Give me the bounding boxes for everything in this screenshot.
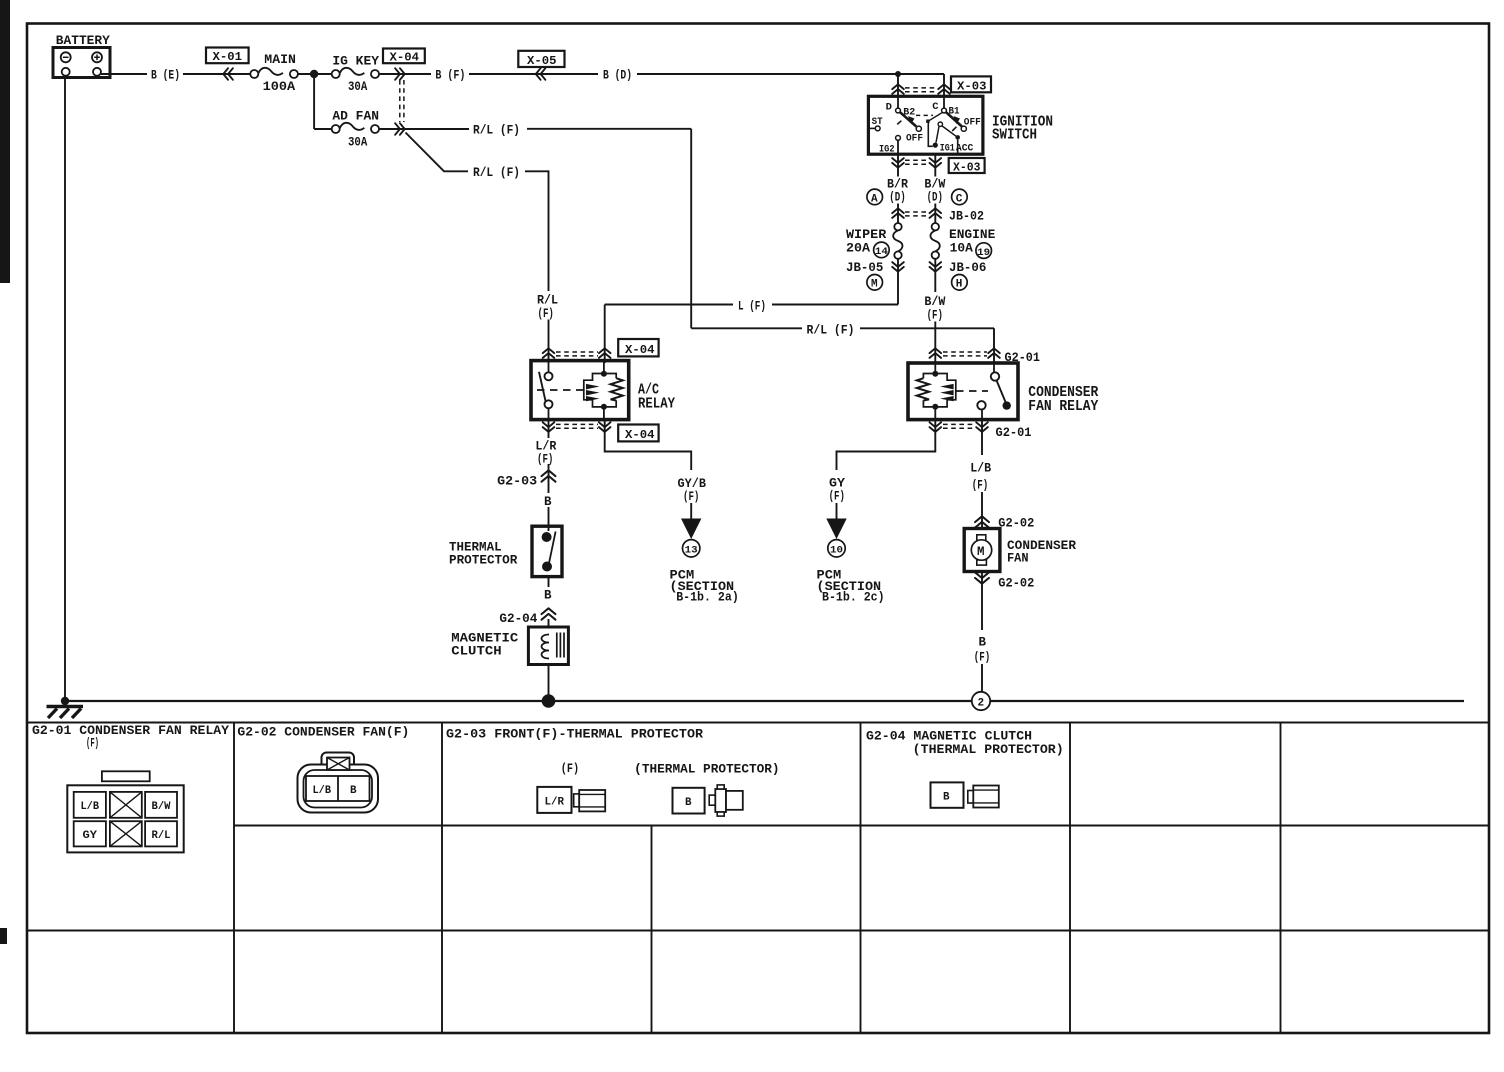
takeout circle 13: [683, 540, 700, 557]
connector X-04 chevrons top: [395, 68, 405, 80]
A/C relay U: [531, 361, 629, 420]
svg-text:X-05: X-05: [527, 54, 557, 68]
position tick left: [897, 121, 901, 125]
svg-text:B: B: [979, 636, 987, 650]
wire B(F) to B(D): [469, 73, 598, 75]
wire B(E) battery to X-01: [101, 73, 250, 75]
wire IG1 below switch: [934, 154, 936, 176]
svg-text:OFF: OFF: [964, 116, 981, 128]
svg-text:(F): (F): [972, 479, 988, 493]
svg-text:OFF: OFF: [906, 132, 923, 144]
scan artifact: left edge tick: [0, 928, 7, 944]
svg-text:X-04: X-04: [625, 343, 655, 357]
svg-text:R/L (F): R/L (F): [473, 123, 520, 137]
battery: [53, 48, 110, 78]
connector X-03 chevrons above ignition switch: [892, 84, 904, 94]
svg-text:ENGINE: ENGINE: [949, 228, 995, 242]
wire junction down to ignition switch: [897, 74, 899, 97]
svg-text:B/W: B/W: [152, 801, 171, 813]
pin IG1: [933, 143, 938, 148]
svg-text:R/L: R/L: [152, 830, 171, 842]
connector G2-02 chevrons above fan: [975, 516, 989, 527]
svg-text:14: 14: [875, 246, 888, 258]
svg-text:(F): (F): [829, 489, 845, 503]
wire wiper fuse down: [897, 259, 899, 305]
svg-text:B-1b. 2a): B-1b. 2a): [676, 591, 739, 605]
takeout circle 14: [874, 242, 890, 258]
svg-text:B: B: [350, 785, 357, 797]
wire magnetic clutch to ground: [548, 665, 550, 702]
wire AD FAN fuse to R/L(F): [379, 128, 469, 130]
ignition switch U: [868, 96, 983, 155]
connector drawing G2-01 condenser fan relay: [67, 771, 183, 852]
wire to magnetic clutch: [548, 619, 550, 627]
connector X-04 chevrons lower: [395, 123, 405, 135]
connector X-04 label box: [383, 49, 425, 65]
fuse AD FAN 30A: [332, 110, 379, 150]
connector X-03 dashed link bottom: [905, 160, 929, 164]
svg-text:B (E): B (E): [151, 68, 180, 82]
blade B2-OFF: [900, 112, 916, 126]
svg-text:CLUTCH: CLUTCH: [451, 645, 501, 659]
connector drawing G2-02 condenser fan: [298, 753, 379, 813]
connector X-05 chevrons: [536, 68, 546, 80]
pin ACC: [955, 135, 960, 140]
svg-text:(F): (F): [86, 736, 99, 751]
svg-text:L/R: L/R: [535, 440, 556, 454]
wire GY down to arrow: [836, 503, 838, 519]
svg-text:JB-05: JB-05: [846, 261, 883, 275]
connector G2-01 dashed link below: [943, 424, 975, 428]
wire R/L(F) second to descent: [525, 171, 549, 291]
svg-text:10: 10: [830, 545, 843, 557]
svg-text:30A: 30A: [348, 136, 368, 150]
svg-text:G2-01 CONDENSER FAN RELAY: G2-01 CONDENSER FAN RELAY: [32, 723, 229, 738]
pin IG2: [896, 136, 901, 141]
wire L(F) down to A/C relay coil: [604, 305, 606, 364]
relay linkage dashed: [956, 390, 988, 392]
wire condenser fan down: [981, 572, 983, 630]
svg-text:X-04: X-04: [625, 428, 655, 442]
svg-text:L (F): L (F): [738, 299, 766, 313]
svg-text:THERMAL: THERMAL: [449, 541, 502, 555]
dashed detent line: [916, 114, 933, 116]
wire B to thermal protector: [548, 507, 550, 531]
wire R/L(F) horizontal to condenser fan relay: [691, 328, 994, 363]
relay coil loop blobs: [940, 384, 954, 401]
svg-text:G2-02: G2-02: [998, 517, 1034, 531]
position tick right: [952, 127, 956, 131]
wire A/C relay coil to PCM: [605, 420, 692, 470]
connector X-04 label box mid upper: [618, 339, 658, 357]
svg-text:L/R: L/R: [545, 797, 565, 809]
svg-text:L/B: L/B: [81, 801, 100, 813]
svg-text:X-01: X-01: [213, 50, 243, 64]
svg-text:M: M: [871, 279, 878, 291]
svg-text:(D): (D): [889, 191, 905, 205]
svg-text:ACC: ACC: [956, 143, 974, 155]
svg-text:R/L (F): R/L (F): [807, 323, 855, 337]
wire A/C relay switch down: [548, 420, 550, 438]
ground bus wire: [65, 700, 1464, 702]
svg-text:D: D: [886, 102, 892, 114]
svg-text:30A: 30A: [348, 80, 368, 94]
svg-text:13: 13: [685, 545, 698, 557]
svg-text:B (D): B (D): [603, 68, 632, 82]
connector X-01 chevrons: [223, 68, 233, 80]
svg-text:(F): (F): [927, 308, 943, 322]
link C to IG1: [929, 113, 942, 121]
relay coil top pin: [603, 361, 605, 374]
wire L(F) horizontal: [605, 304, 898, 306]
takeout circle 19: [976, 243, 992, 259]
magnetic clutch U: [528, 627, 568, 665]
connector JB-02 chevrons: [892, 208, 904, 218]
connector G2-01 dashed link above: [943, 352, 987, 356]
svg-text:(F): (F): [537, 453, 553, 467]
terminal box L/R with plug icon: [537, 787, 605, 813]
svg-text:B/R: B/R: [887, 178, 908, 192]
svg-text:G2-04: G2-04: [499, 612, 537, 626]
relay switch contacts: [545, 372, 553, 380]
connector X-04 label box mid lower: [618, 425, 658, 443]
svg-text:FAN: FAN: [1007, 551, 1029, 566]
svg-text:B (F): B (F): [435, 68, 465, 82]
junction node: [310, 70, 318, 78]
svg-text:G2-01: G2-01: [996, 425, 1032, 440]
svg-text:R/L: R/L: [537, 294, 558, 308]
svg-text:IG KEY: IG KEY: [332, 55, 379, 69]
svg-text:M: M: [977, 545, 985, 559]
connector G2-02 chevrons below fan: [975, 572, 989, 583]
svg-text:(D): (D): [927, 191, 943, 205]
connector X-03 dashed link top: [905, 88, 937, 92]
wire IG2 below switch: [897, 154, 899, 176]
svg-text:GY/B: GY/B: [678, 477, 707, 491]
wire B/W to engine fuse: [934, 204, 936, 224]
connector G2-01 chevrons below relay: [930, 422, 942, 432]
svg-text:10A: 10A: [950, 241, 974, 255]
takeout circle A: [867, 189, 883, 205]
svg-text:IG2: IG2: [879, 143, 895, 155]
svg-text:G2-03 FRONT(F)-THERMAL PROTECT: G2-03 FRONT(F)-THERMAL PROTECTOR: [446, 727, 703, 742]
svg-text:C: C: [932, 101, 939, 113]
connector JB-06 chevrons: [930, 262, 942, 272]
svg-text:GY: GY: [829, 476, 846, 490]
svg-text:G2-02 CONDENSER FAN(F): G2-02 CONDENSER FAN(F): [237, 725, 409, 740]
condenser fan relay U: [908, 363, 1018, 420]
junction node battery ground: [61, 697, 69, 705]
svg-text:(THERMAL PROTECTOR): (THERMAL PROTECTOR): [634, 763, 779, 777]
fuse IG KEY 30A: [332, 55, 380, 94]
svg-text:B: B: [685, 797, 692, 809]
svg-text:L/B: L/B: [970, 462, 991, 476]
wire B/R to wiper fuse: [897, 204, 899, 224]
svg-text:(F): (F): [974, 651, 990, 665]
relay coil bottom pin: [601, 404, 607, 410]
wire battery negative to ground: [64, 76, 66, 701]
svg-text:B-1b. 2c): B-1b. 2c): [822, 591, 885, 605]
wire engine fuse down: [934, 259, 936, 292]
svg-text:A: A: [871, 193, 878, 205]
wire condenser fan relay coil to PCM: [837, 420, 936, 470]
takeout circle 2 on ground bus: [972, 692, 990, 710]
ground symbol: [47, 707, 84, 719]
wire fuse to B(F): [379, 73, 431, 75]
svg-text:JB-06: JB-06: [949, 261, 986, 275]
svg-text:(F): (F): [683, 490, 699, 504]
blade B1-OFF: [946, 112, 962, 126]
svg-text:L/B: L/B: [313, 785, 332, 797]
svg-text:2: 2: [978, 698, 985, 710]
svg-text:AD FAN: AD FAN: [332, 110, 379, 124]
connector X-05 label box: [518, 51, 564, 68]
connector X-04 dashed link above relay: [556, 352, 598, 356]
svg-text:GY: GY: [83, 830, 98, 842]
svg-text:B/W: B/W: [924, 295, 945, 309]
connector table grid: [27, 723, 1489, 1034]
svg-text:X-03: X-03: [957, 79, 987, 93]
svg-text:B: B: [943, 792, 950, 804]
svg-text:IG1: IG1: [940, 143, 955, 155]
svg-text:X-04: X-04: [390, 51, 420, 65]
svg-text:WIPER: WIPER: [846, 228, 887, 242]
takeout circle 10: [828, 540, 845, 557]
wire B(D) to ignition switch: [637, 74, 944, 97]
wire R/L(F) resume to A/C relay: [548, 320, 550, 364]
condenser fan motor U: [964, 529, 1000, 572]
connector G2-01 chevrons above condenser fan relay: [930, 348, 942, 358]
junction node magnetic clutch ground: [542, 694, 556, 708]
svg-text:B: B: [544, 495, 552, 509]
wire L/B down to condenser fan: [981, 492, 983, 529]
svg-text:C: C: [956, 193, 963, 205]
relay coil resistor zigzag: [611, 378, 623, 400]
connector X-04 chevrons above A/C relay: [543, 348, 555, 358]
connector JB-02 dashed link: [905, 212, 929, 216]
svg-text:B: B: [544, 589, 552, 603]
svg-text:B/W: B/W: [924, 178, 945, 192]
svg-text:BATTERY: BATTERY: [56, 33, 110, 48]
wire B(F) to ground circle 2: [981, 664, 983, 692]
terminal box B with plug icon G2-04: [931, 782, 999, 807]
takeout circle C: [952, 189, 968, 205]
connector X-04 dashed link below relay: [556, 424, 598, 428]
wire GY/B down to arrow: [690, 503, 692, 519]
takeout circle M: [867, 275, 883, 291]
svg-text:FAN RELAY: FAN RELAY: [1028, 399, 1098, 415]
svg-text:G2-02: G2-02: [998, 576, 1034, 590]
svg-text:MAIN: MAIN: [264, 53, 296, 67]
wire junction to AD FAN fuse: [314, 74, 332, 129]
wire B/W(F) down to condenser fan relay: [934, 322, 936, 364]
svg-text:PROTECTOR: PROTECTOR: [449, 554, 518, 568]
wire condenser fan relay switch down: [981, 420, 983, 455]
svg-text:MAGNETIC: MAGNETIC: [451, 632, 519, 646]
svg-text:SWITCH: SWITCH: [992, 128, 1037, 144]
rotor ACC arm: [938, 122, 942, 126]
svg-text:G2-03: G2-03: [497, 475, 537, 489]
svg-text:(F): (F): [561, 762, 579, 776]
thermal protector U: [532, 526, 562, 576]
connector X-01 label box: [206, 48, 249, 65]
relay coil outline: [584, 374, 616, 407]
svg-text:R/L (F): R/L (F): [473, 166, 520, 180]
connector X-04 chevrons below A/C relay: [543, 422, 555, 432]
relay switch contacts: [993, 363, 995, 372]
PCM arrow left: [681, 519, 701, 540]
relay coil outline: [923, 374, 955, 407]
fuse WIPER 20A: [846, 223, 903, 259]
svg-text:(THERMAL PROTECTOR): (THERMAL PROTECTOR): [913, 742, 1064, 757]
scan artifact: left edge black bar: [0, 0, 10, 283]
terminal box B with thermal protector plug icon: [673, 785, 743, 816]
svg-text:H: H: [956, 279, 963, 291]
fuse ENGINE 10A: [930, 223, 995, 259]
PCM arrow right: [826, 519, 846, 540]
wire MAIN fuse to IG KEY fuse: [298, 73, 332, 75]
svg-text:RELAY: RELAY: [638, 397, 675, 413]
connector X-03 chevrons below switch: [892, 158, 904, 168]
wire R/L(F) horizontal to descent: [527, 128, 691, 130]
junction node above ignition switch: [895, 71, 901, 77]
relay coil loop blobs: [586, 384, 600, 401]
wire diagonal branch to second R/L(F): [406, 133, 469, 172]
takeout circle H: [952, 275, 968, 291]
relay linkage dashed: [537, 389, 584, 391]
connector X-03 label box top: [951, 76, 991, 93]
connector X-03 label box bottom: [949, 158, 985, 174]
svg-text:JB-02: JB-02: [949, 209, 984, 223]
connector X-04 dashed link: [400, 80, 404, 122]
wire to G2-03 connector: [548, 464, 550, 493]
svg-text:19: 19: [977, 247, 990, 259]
wire R/L(F) vertical from fuse row: [690, 129, 692, 328]
connector G2-03 chevrons: [542, 470, 556, 481]
connector G2-04 chevrons: [542, 608, 556, 619]
connector JB-05 chevrons: [892, 262, 904, 272]
svg-text:(F): (F): [538, 307, 554, 321]
relay coil resistor zigzag: [917, 378, 929, 400]
relay coil bottom pin: [932, 404, 938, 410]
svg-text:20A: 20A: [846, 241, 871, 255]
svg-text:X-03: X-03: [953, 160, 981, 174]
wire thermal protector down: [548, 577, 550, 587]
svg-text:100A: 100A: [263, 80, 296, 94]
fuse MAIN 100A: [250, 53, 298, 94]
relay coil top pin: [934, 363, 936, 374]
